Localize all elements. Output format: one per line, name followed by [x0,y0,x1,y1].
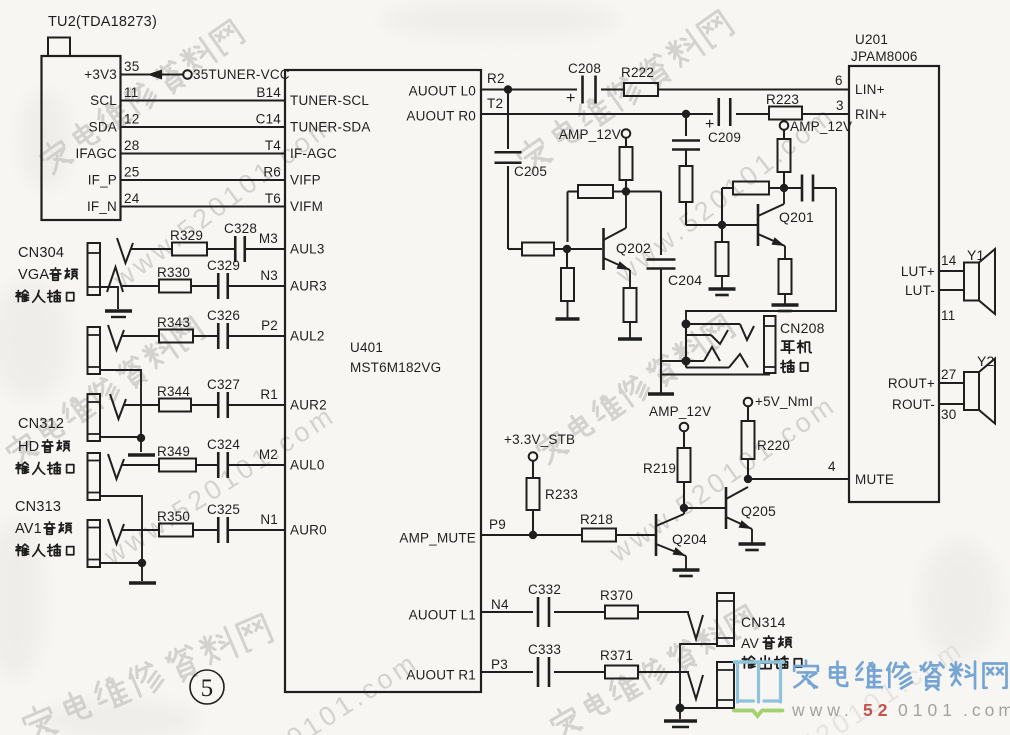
wire AUOUT L0 / R2 to LIN+ [481,71,849,94]
svg-text:52: 52 [863,700,892,720]
power AMP_12V for Q201 [780,119,852,139]
svg-text:AV1: AV1 [15,521,42,537]
speaker Y2 [964,353,995,424]
svg-text:AUL0: AUL0 [290,458,325,473]
svg-text:P3: P3 [491,657,508,672]
wire CN208 sleeve to AMP_12V rail [661,361,770,394]
svg-text:IF_P: IF_P [88,173,117,188]
ground Q205 emitter [751,535,753,544]
wire C14 (TU2 pin 12) [121,112,286,128]
svg-text:R220: R220 [757,438,790,453]
wire AUOUT R1 / P3 [481,657,703,699]
svg-text:R1: R1 [260,387,278,402]
svg-text:LUT+: LUT+ [901,264,935,279]
svg-text:SCL: SCL [90,93,117,108]
svg-text:R223: R223 [766,92,799,107]
label CN314 AV audio output [741,614,802,669]
svg-text:HD: HD [18,439,39,455]
connector CN304 jack body [88,243,101,295]
svg-text:C205: C205 [514,164,547,179]
connector CN208 contacts [661,320,754,368]
svg-text:P2: P2 [261,318,278,333]
capacitor C329 [207,258,240,299]
svg-text:+5V_NmI: +5V_NmI [755,394,813,409]
resistor R371 [600,648,638,679]
svg-text:ROUT-: ROUT- [892,397,935,412]
svg-text:+: + [566,90,576,107]
svg-text:5: 5 [201,675,214,702]
wire Q202 base bias [508,245,602,253]
connector CN314 jack bottom body [717,662,734,708]
wire audio row N1 [108,519,285,544]
label CN304 VGA audio input connector [16,245,78,302]
wire to CN208 top contact [686,188,836,324]
svg-text:MST6M182VG: MST6M182VG [350,360,441,375]
svg-text:CN314: CN314 [741,614,786,630]
svg-text:R371: R371 [600,648,633,663]
resistor R218 [580,512,616,542]
svg-text:R219: R219 [643,461,676,476]
power AMP_12V for R219 [649,404,711,448]
svg-text:C325: C325 [207,502,240,517]
svg-text:N4: N4 [491,597,509,612]
svg-text:AUR0: AUR0 [290,523,327,538]
capacitor C324 [207,437,240,478]
svg-text:IFAGC: IFAGC [75,146,117,161]
resistor R350 [157,509,193,537]
svg-text:U401: U401 [350,340,383,355]
svg-text:VIFM: VIFM [290,199,323,214]
capacitor C204 [647,192,703,362]
svg-text:C333: C333 [528,642,561,657]
svg-text:VGA: VGA [18,267,49,283]
wire audio row M3 [117,238,285,263]
svg-text:R2: R2 [487,71,505,86]
svg-text:6: 6 [835,73,843,88]
resistor Q201 collector load [778,139,791,192]
svg-text:35TUNER-VCC: 35TUNER-VCC [193,67,290,82]
power +5V_NmI [744,394,813,421]
svg-text:MUTE: MUTE [855,472,894,487]
wire audio row R1 [110,394,285,419]
svg-text:AUOUT L1: AUOUT L1 [409,608,476,623]
svg-text:M3: M3 [259,231,278,246]
svg-text:AUOUT L0: AUOUT L0 [409,84,476,99]
svg-text:TU2(TDA18273): TU2(TDA18273) [48,14,157,30]
svg-text:11: 11 [124,85,138,100]
svg-text:ROUT+: ROUT+ [888,376,935,391]
IC TU2 (TDA18273) tuner block [42,14,157,220]
IC U401 MST6M182VG [285,70,481,692]
capacitor C205 [495,90,548,250]
logo book icon [734,662,784,716]
resistor Q201 feedback [722,182,784,226]
capacitor Q201 output coupling [784,175,836,202]
svg-text:0101: 0101 [898,700,957,720]
connector CN313 jack D body [88,520,101,567]
svg-text:Q204: Q204 [672,531,707,547]
svg-text:AV: AV [741,635,759,651]
wire ROUT+ pin 27 [939,367,964,383]
svg-text:AUR3: AUR3 [290,279,327,294]
resistor R349 [157,444,196,472]
svg-text:www.: www. [791,700,854,720]
page number 5 (circled) [190,670,224,704]
svg-text:C328: C328 [224,221,257,236]
svg-text:T2: T2 [487,96,503,111]
svg-text:28: 28 [124,138,139,153]
wire R6 (TU2 pin 25) [121,165,286,181]
logo text 520101 site name [794,661,1006,690]
connector CN312 jack A body [88,327,101,374]
transistor Q204 [656,510,707,562]
svg-text:TUNER-SCL: TUNER-SCL [290,93,369,108]
svg-text:Y1: Y1 [967,247,985,263]
resistor R343 [157,315,193,343]
resistor Q201 emitter [779,259,792,294]
svg-text:Y2: Y2 [977,353,995,369]
svg-text:11: 11 [941,308,955,323]
svg-text:N3: N3 [260,268,278,283]
connector CN208 jack body [764,316,776,373]
svg-text:27: 27 [941,367,956,382]
svg-text:IF_N: IF_N [87,199,117,214]
capacitor C326 [207,308,240,349]
svg-text:Q201: Q201 [779,209,814,225]
svg-text:R218: R218 [580,512,613,527]
wire B14 (TU2 pin 11) [121,85,286,101]
svg-text:AMP_12V: AMP_12V [790,119,852,134]
ground Q204 emitter [685,562,687,570]
svg-text:R330: R330 [157,265,190,280]
svg-text:+3.3V_STB: +3.3V_STB [504,432,575,447]
svg-text:M2: M2 [259,447,278,462]
svg-text:24: 24 [124,191,140,206]
svg-text:SDA: SDA [89,120,117,135]
svg-text:R222: R222 [621,65,654,80]
ground for CN313 with junction [100,496,156,583]
IC U201 JPAM8006 [835,32,939,502]
svg-text:N1: N1 [260,512,278,527]
svg-text:AMP_12V: AMP_12V [559,127,621,142]
label CN208 headphone jack [780,320,825,372]
wire MUTE to U201 pin 4 [744,459,849,483]
wire ROUT- pin 30 [939,404,964,422]
capacitor C332 [528,582,561,627]
wire Q202 collector node [613,187,661,195]
svg-text:C327: C327 [207,377,240,392]
resistor R344 [157,384,191,412]
wire AMP_MUTE / P9 [481,517,655,539]
speaker Y1 [964,247,995,314]
wire TUNER-VCC (pin 35) with arrow [121,67,290,82]
svg-text:CN208: CN208 [780,320,825,336]
svg-text:R343: R343 [157,315,190,330]
svg-text:AMP_12V: AMP_12V [649,404,711,419]
wire Q204 collector to Q205 base [680,504,726,512]
wire Q201 base node [718,221,757,229]
svg-text:30: 30 [941,407,956,422]
svg-text:25: 25 [124,165,139,180]
svg-text:C209: C209 [708,130,741,145]
svg-text:12: 12 [124,112,139,127]
svg-text:CN313: CN313 [15,499,61,515]
svg-text:AMP_MUTE: AMP_MUTE [399,531,476,546]
svg-text:AUOUT R0: AUOUT R0 [406,109,476,124]
svg-text:C332: C332 [528,582,561,597]
wire AUOUT L1 / N4 [481,597,703,639]
wire LUT+ pin 14 [939,253,964,271]
svg-text:IF-AGC: IF-AGC [290,146,337,161]
svg-text:+3V3: +3V3 [84,67,117,82]
ground Q201 base resistor [721,276,723,289]
svg-text:CN312: CN312 [18,416,64,432]
capacitor C208 (polarized) [566,61,601,107]
svg-text:TUNER-SDA: TUNER-SDA [290,120,371,135]
svg-text:R370: R370 [600,588,633,603]
resistor Q202 feedback [568,185,614,242]
capacitor Q201 input [672,114,700,166]
ground Q202 base resistor [567,301,569,319]
connector CN312 jack B body [88,394,101,441]
wire T6 (TU2 pin 24) [121,191,286,207]
resistor R222 [621,65,658,96]
capacitor C328 [224,221,257,262]
svg-text:C204: C204 [668,272,702,288]
svg-text:AUL2: AUL2 [290,329,325,344]
power +3.3V_STB [504,432,575,478]
label CN312 HD audio input connector [16,416,74,474]
svg-text:R344: R344 [157,384,190,399]
capacitor C209 (polarized) [705,98,741,145]
resistor R233 [527,478,579,535]
svg-text:C208: C208 [568,61,601,76]
svg-text:B14: B14 [256,85,281,100]
wire AUOUT R0 / T2 to RIN+ [481,96,849,118]
transistor Q205 [726,487,776,535]
ground CN314 with junction [664,644,717,727]
ground for CN312 with junction [100,370,155,455]
svg-text:R6: R6 [263,165,281,180]
resistor Q202 base series [522,243,554,256]
svg-text:RIN+: RIN+ [855,107,887,122]
resistor R223 [766,92,802,120]
wire LUT- pin 11 [939,290,964,323]
resistor R330 [157,265,191,293]
power AMP_12V for Q202 [559,127,630,147]
wire audio row P2 [108,325,285,350]
svg-text:U201: U201 [855,32,888,47]
svg-text:LIN+: LIN+ [855,82,885,97]
resistor R370 [600,588,638,619]
svg-text:35: 35 [124,59,139,74]
label CN313 AV1 audio input connector [15,499,74,556]
svg-text:AUL3: AUL3 [290,242,325,257]
svg-text:P9: P9 [489,517,506,532]
svg-text:JPAM8006: JPAM8006 [851,49,918,64]
svg-text:3: 3 [836,98,844,113]
connector CN314 jack top body [717,593,734,646]
svg-text:AUR2: AUR2 [290,398,327,413]
svg-text:T4: T4 [265,138,281,153]
svg-text:C14: C14 [256,112,282,127]
wire audio row M2 [108,454,285,479]
capacitor C325 [207,502,240,543]
svg-text:VIFP: VIFP [290,173,321,188]
svg-text:C324: C324 [207,437,240,452]
resistor Q202 base to ground [561,249,574,301]
svg-text:.com: .com [963,700,1010,720]
capacitor C327 [207,377,240,418]
transistor Q201 [758,188,814,259]
svg-text:R349: R349 [157,444,190,459]
transistor Q202 [604,192,652,289]
svg-text:4: 4 [828,459,836,474]
power rail AMP_12V (bar) [648,392,674,395]
svg-text:R350: R350 [157,509,190,524]
ground for CN304 [100,287,132,317]
svg-text:Q202: Q202 [616,240,651,256]
resistor Q201 base to ground [716,225,729,276]
svg-text:R233: R233 [545,487,578,502]
svg-text:AUOUT R1: AUOUT R1 [406,668,476,683]
resistor Q202 emitter [624,288,637,322]
svg-text:CN304: CN304 [18,245,64,261]
wire audio row N3 [107,267,285,292]
resistor R219 [643,448,691,508]
connector CN313 jack C body [88,453,101,500]
logo url www.520101.com [791,700,1010,720]
resistor R220 [742,421,791,479]
svg-text:R329: R329 [170,228,203,243]
svg-text:C329: C329 [207,258,240,273]
watermark diagonal text [37,17,246,176]
ground Q201 emitter [784,294,786,305]
svg-text:C326: C326 [207,308,240,323]
svg-text:Q205: Q205 [741,503,776,519]
resistor R329 [170,228,207,256]
svg-text:LUT-: LUT- [905,283,935,298]
resistor Q202 collector load [620,147,633,192]
ground Q202 emitter [629,322,631,339]
svg-text:T6: T6 [265,191,281,206]
resistor Q201 base series [680,166,722,225]
capacitor C333 [528,642,561,687]
wire T4 (TU2 pin 28) [121,138,286,154]
svg-text:14: 14 [941,253,957,268]
